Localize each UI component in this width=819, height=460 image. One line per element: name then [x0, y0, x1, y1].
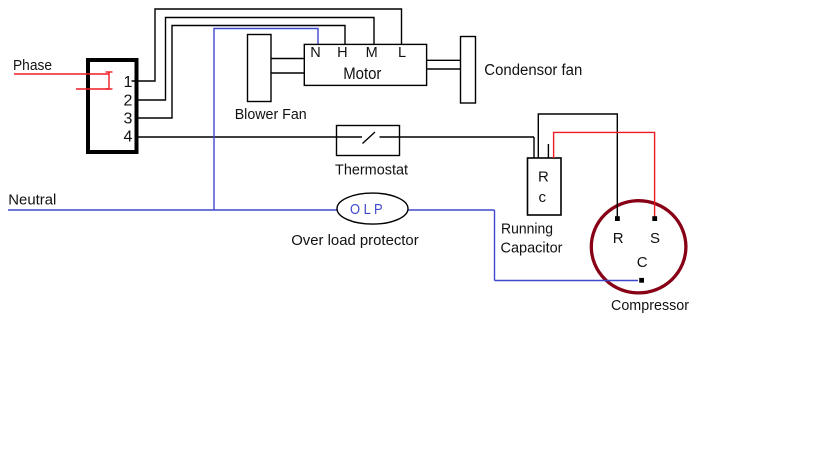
over load protector OLP [337, 193, 408, 224]
terminal R [615, 216, 620, 221]
svg-text:Condensor fan: Condensor fan [484, 62, 582, 79]
svg-text:Capacitor: Capacitor [501, 240, 563, 257]
terminal S [652, 216, 657, 221]
svg-text:C: C [637, 254, 648, 271]
svg-text:c: c [539, 189, 547, 206]
wire neutral bus [8, 210, 638, 281]
svg-text:L: L [398, 45, 406, 61]
svg-text:R: R [538, 169, 549, 186]
svg-text:S: S [650, 230, 660, 247]
wire capacitor terminal stub [547, 144, 549, 158]
svg-text:R: R [613, 230, 624, 247]
compressor body [591, 201, 686, 293]
wire blower fan to motor shaft [271, 59, 305, 74]
terminal block [88, 60, 137, 152]
wire terminal1 to motor L [132, 9, 402, 81]
wire capacitor to compressor S red [554, 132, 655, 216]
thermostat body [337, 126, 400, 156]
svg-text:Compressor: Compressor [611, 297, 689, 314]
wire terminal2 to motor M [135, 18, 374, 101]
wire terminal3 to motor H [135, 26, 345, 119]
running capacitor Rc [528, 158, 562, 215]
wire motor to condensor fan shaft [427, 60, 461, 69]
svg-text:N: N [310, 45, 320, 61]
svg-text:Neutral: Neutral [8, 191, 56, 208]
wire phase red lead [14, 72, 113, 89]
wire neutral blue riser to motor N [214, 29, 318, 211]
terminal C [639, 278, 644, 283]
svg-text:H: H [337, 45, 347, 61]
svg-text:Thermostat: Thermostat [335, 162, 409, 179]
blower fan [248, 35, 272, 102]
svg-text:Motor: Motor [343, 64, 381, 83]
svg-text:Blower Fan: Blower Fan [235, 106, 307, 123]
thermostat switch contact [363, 132, 376, 144]
svg-text:1: 1 [124, 74, 133, 91]
svg-text:2: 2 [124, 92, 133, 109]
svg-text:Over load protector: Over load protector [291, 232, 419, 249]
wire terminal4 to thermostat and capacitor [135, 137, 534, 158]
svg-text:Running: Running [501, 221, 553, 238]
condensor fan [461, 37, 476, 104]
svg-text:O L P: O L P [350, 201, 383, 218]
svg-text:4: 4 [124, 129, 133, 146]
svg-text:Phase: Phase [13, 57, 52, 74]
wire capacitor to compressor R [538, 114, 617, 217]
svg-text:M: M [366, 45, 378, 61]
motor U1 [304, 44, 426, 85]
svg-text:3: 3 [124, 111, 133, 128]
